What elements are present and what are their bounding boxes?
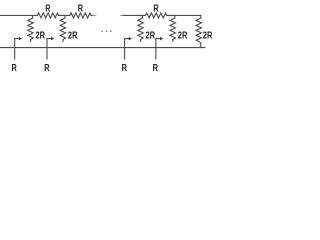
wire: top rail right section [123, 14, 201, 16]
svg-text:R: R [153, 63, 159, 74]
switch arrow / bit line #2 [47, 39, 52, 59]
resistor 2R (terminator) [196, 15, 201, 47]
arrowhead #2 [51, 37, 54, 41]
svg-text:R: R [122, 63, 128, 74]
wire: top rail left section [0, 14, 93, 16]
wire: bottom bus [0, 47, 205, 49]
wire: top rail right fade-in tail [121, 14, 124, 16]
svg-text:2R: 2R [146, 30, 156, 41]
svg-text:R: R [153, 3, 159, 14]
switch arrow / bit line #1 [15, 39, 20, 59]
resistor 2R (shunt #1) [28, 15, 33, 41]
svg-text:2R: 2R [68, 30, 78, 41]
svg-text:R: R [44, 63, 50, 74]
svg-text:2R: 2R [178, 30, 188, 41]
resistor R (series, left-2) [70, 13, 91, 18]
svg-text:R: R [45, 3, 51, 14]
svg-text:2R: 2R [36, 30, 46, 41]
arrowhead #3 [129, 37, 132, 41]
resistor 2R (shunt #3) [138, 15, 143, 41]
resistor R (series, right-1) [145, 13, 166, 18]
resistor 2R (shunt #2) [60, 15, 65, 41]
svg-text:2R: 2R [203, 30, 213, 41]
resistor 2R (shunt #4) [170, 15, 175, 41]
ellipsis (ladder continues) [101, 30, 112, 32]
arrowhead #4 [160, 37, 163, 41]
resistor R (series, left-1) [37, 13, 58, 18]
svg-text:R: R [11, 63, 17, 74]
wire: top rail left fade-out tail [93, 14, 96, 16]
switch arrow / bit line #4 [156, 39, 161, 59]
arrowhead #1 [19, 37, 22, 41]
switch arrow / bit line #3 [125, 39, 130, 59]
svg-text:R: R [78, 3, 84, 14]
